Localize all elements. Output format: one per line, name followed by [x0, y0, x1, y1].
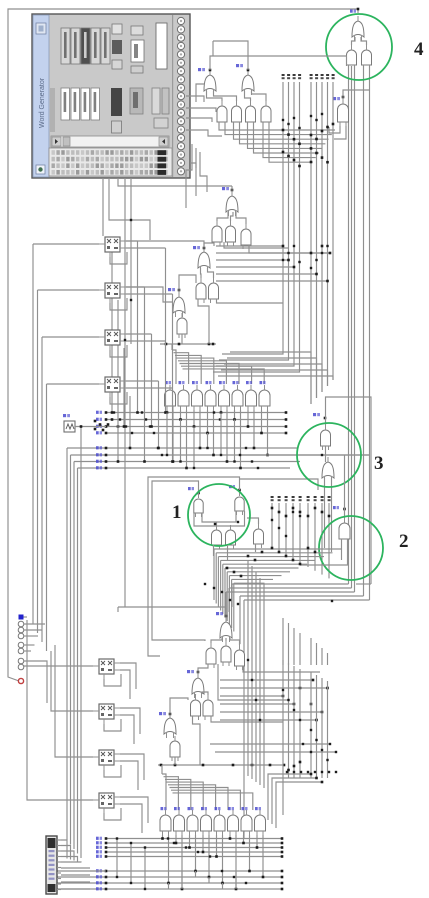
bus A line 3 — [106, 426, 286, 428]
junction dots row y772 — [286, 771, 337, 773]
wire FB2 out a — [120, 708, 140, 734]
left bundle wire 5 — [80, 427, 82, 858]
wire FB4 input — [27, 620, 93, 800]
blue label bottom bus A 2 — [96, 841, 102, 844]
blue label row2 gate 8 — [255, 807, 261, 810]
wires AND row deep drops — [167, 413, 235, 469]
wire C1D drop — [227, 545, 229, 560]
junction dots bus upper — [282, 123, 335, 168]
bottom vertical bus 4 — [299, 669, 301, 778]
wire FF1 out b — [126, 247, 166, 249]
wire connector link bus — [90, 870, 106, 872]
junction dot T5 out — [203, 247, 206, 250]
wire FF2 out a — [126, 286, 145, 288]
bottom vertical bus 3 — [293, 666, 295, 778]
wire U19 drop a — [363, 66, 365, 596]
bottom bus A dots — [105, 837, 284, 858]
wire outer loop from OR U17 output around page left edge — [8, 9, 358, 681]
wire B6 to B5 — [195, 694, 197, 695]
bottom vertical bus 7 — [321, 678, 323, 778]
wire FF2 loop — [110, 298, 127, 310]
wire B1 out — [118, 607, 226, 617]
panel frequency control — [130, 26, 144, 114]
junction dot C2 out — [343, 508, 346, 511]
vertical bus wire T4 — [213, 82, 300, 372]
wire drop to tree 4 — [239, 596, 241, 644]
flip-flop FB2 — [93, 704, 120, 724]
blue label row2 gate 6 — [228, 807, 234, 810]
AND gate C1E — [254, 524, 264, 548]
wire right turn 6 — [356, 583, 371, 585]
wire C2A out up — [344, 455, 346, 518]
wire FF1 loop — [110, 252, 127, 264]
wires panel terminals to gates — [186, 96, 222, 136]
blue label bottom bus B 3 — [96, 881, 102, 884]
flip-flop FF1 — [99, 237, 126, 257]
wire panel to FF1 — [102, 178, 104, 236]
bottom bus B line 2 — [57, 876, 282, 878]
bundle bottom corner 3 — [73, 848, 75, 850]
bus A line 1 — [106, 412, 286, 414]
wire drop to tree 2 — [228, 588, 230, 612]
blue label C1 right — [229, 485, 235, 488]
wire T2 to T1 — [217, 212, 228, 221]
wires bottom AND row drops — [163, 835, 264, 889]
blue label B8 — [159, 712, 166, 715]
junction dot at U17 output — [357, 8, 360, 11]
junction dots fan-bus — [282, 129, 329, 164]
blue label bus B 2 — [96, 453, 102, 456]
blue label row1 gate 8 — [260, 381, 266, 384]
vertical bus wire T1 — [222, 82, 283, 354]
vertical bus wire T8 — [327, 82, 329, 386]
blue label row1 gate 3 — [192, 381, 198, 384]
AND gate S5 — [214, 810, 225, 835]
blue label U16 — [333, 97, 340, 100]
wire C1D up — [230, 525, 232, 526]
blue label row2 gate 5 — [215, 807, 221, 810]
vertical bus wire T6 — [316, 82, 318, 398]
wire U18 drop b — [351, 66, 353, 588]
svg-text:1: 1 — [172, 502, 182, 523]
blue label B5 — [187, 670, 194, 673]
wire FF4 out a — [126, 380, 159, 382]
wire blue terminal — [24, 616, 28, 618]
indicator circles column — [18, 621, 24, 670]
wire B7 to B5 — [202, 692, 208, 695]
wire panel bottom drop 1 — [118, 178, 232, 186]
wire fan connector to bundle — [61, 840, 81, 863]
wire right turn 5 — [244, 599, 370, 601]
AND gate B2 — [206, 643, 216, 668]
blue label C3 gate — [313, 413, 320, 416]
AND gate T6 — [196, 278, 206, 303]
wires bottom bus upward extensions — [283, 618, 328, 665]
wire B4 to B1 — [230, 638, 240, 645]
blue label U2 — [236, 64, 243, 67]
annotation circle 1 — [188, 484, 250, 546]
bus B line 2 — [71, 454, 370, 456]
flip-flop FF3 — [99, 330, 126, 350]
junction dots clock area — [80, 418, 120, 431]
junction dots U1 U2 outputs — [209, 69, 250, 72]
wire stub y479 — [240, 479, 318, 490]
wire C3B drop b — [331, 478, 333, 552]
wire C3A output up — [326, 397, 372, 584]
annotation number 2 — [399, 531, 409, 552]
Word Generator title bar icon — [36, 23, 46, 34]
wire FF1 to T5 — [126, 241, 204, 246]
bottom bundle corner 3 — [272, 778, 317, 824]
bottom bundle corner 1 — [282, 778, 284, 815]
wire FB4 loop — [104, 808, 121, 820]
wire bottom tree horizontal — [158, 764, 285, 766]
AND gate U5 — [246, 101, 256, 126]
left bundle wire 4 — [77, 468, 79, 854]
wire fan middle — [214, 549, 341, 632]
wire panel to tree 2 — [109, 178, 150, 240]
AND gate U19 (circle 4 right) — [362, 45, 372, 69]
wire U19 drop b — [369, 66, 371, 600]
AND gate S7 — [241, 810, 252, 835]
bottom bus B line 4 — [57, 888, 282, 890]
left bundle wire 1 — [66, 448, 68, 840]
wire FF1 input — [33, 243, 99, 245]
bottom vertical bus 1 — [282, 660, 284, 778]
wire U16 stub left b — [334, 126, 346, 139]
blue label row2 gate 1 — [161, 807, 167, 810]
wires FF column verticals — [112, 241, 173, 462]
wire drop to tree 5 — [243, 600, 245, 838]
panel trigger buttons — [111, 24, 122, 133]
wire FB1 input — [24, 665, 93, 667]
svg-text:2: 2 — [399, 531, 409, 552]
panel address fields Edit/Current/Initial/Final — [50, 88, 100, 132]
panel control buttons Cycle/Burst/Step — [61, 28, 110, 64]
connector J1 — [46, 836, 57, 894]
svg-text:3: 3 — [374, 453, 384, 474]
OR gate C3B — [322, 457, 334, 482]
wire long bottom horizontal 2 — [215, 751, 336, 753]
bus A line 4 — [106, 432, 286, 434]
wire T8 out up — [179, 275, 196, 292]
wire top link — [212, 41, 214, 56]
AND gate R3 — [192, 385, 203, 410]
wire C1 loop inner — [202, 511, 236, 522]
bottom bus B dots — [105, 870, 284, 891]
wire FB3 input — [55, 645, 93, 757]
wire FB1 out b — [120, 670, 130, 699]
wire B3 to B1 — [225, 638, 227, 641]
junction dot B5 out — [197, 671, 200, 674]
bus A line 2 — [106, 419, 286, 421]
wire U1 input feed left — [196, 84, 204, 102]
vertical bus wire T7 — [321, 82, 323, 392]
bottom vertical bus 2 — [288, 663, 290, 778]
junction dots deep drops — [166, 447, 236, 469]
wire C1C drop — [213, 545, 215, 556]
flip-flop FB1 — [93, 659, 120, 679]
wire U6 out to U2 in — [252, 91, 267, 101]
svg-text:4: 4 — [414, 39, 424, 60]
wire FF1 out a — [126, 240, 138, 242]
annotation number 3 — [374, 453, 384, 474]
AND gate C1A — [194, 493, 203, 517]
bus B dots — [105, 447, 108, 470]
junction dots bottom bundle — [287, 761, 323, 784]
clock source symbol — [64, 421, 75, 432]
junction dots AND row drops — [166, 411, 269, 469]
wire U4 out to U1 in — [214, 91, 237, 101]
wire C1A out up — [152, 481, 205, 641]
wire U18 drop a — [348, 66, 350, 584]
bus A end dots — [105, 411, 288, 434]
wire tree right link 3 — [224, 242, 289, 248]
wires long verticals mid-bottom — [248, 560, 264, 788]
blue label bottom bus B 2 — [96, 875, 102, 878]
bottom bus A line 3 — [106, 847, 282, 849]
bottom bus A line 1 — [106, 838, 282, 840]
AND gate C3A — [321, 425, 331, 450]
wire T9 drop — [181, 334, 183, 344]
vertical bus wire T5 — [310, 82, 312, 404]
wire U18 drop c — [354, 66, 356, 592]
AND gate R7 — [246, 385, 257, 410]
bottom bus B line 1 — [57, 870, 282, 872]
vertical bus row 2 wires — [272, 503, 329, 578]
AND gate T7 — [209, 278, 219, 303]
wire tree horizontal with dots — [160, 343, 216, 345]
wires AND row drops — [167, 410, 268, 468]
blue label row1 gate 7 — [246, 381, 252, 384]
AND gate C1C — [212, 525, 222, 549]
svg-text:Word Generator: Word Generator — [39, 77, 46, 128]
junction dots bottom tree horizontal — [160, 764, 286, 767]
AND gate B3 — [221, 641, 231, 666]
blue label bottom bus B 4 — [96, 887, 102, 890]
wire FB3 out b — [120, 761, 138, 790]
blue label C2 — [333, 506, 339, 509]
annotation circle 3 — [297, 423, 361, 487]
wire U16 output up — [343, 90, 370, 99]
wire tree right link 2 — [217, 299, 284, 303]
junction dots density — [113, 113, 329, 884]
wire U19 output to U17 input — [361, 37, 367, 45]
wire T1 out — [231, 186, 233, 191]
blue label row2 gate 7 — [242, 807, 248, 810]
wire FB4 out a — [120, 797, 148, 823]
blue label bottom bus A 3 — [96, 846, 102, 849]
wire U1 output up and right to U18 — [210, 56, 347, 70]
wire B5 out up — [198, 664, 208, 673]
bus B line 4 — [78, 467, 291, 469]
wires indicator fan — [24, 624, 45, 651]
AND gate U6 — [261, 101, 271, 126]
wires tree to bus horizontals — [216, 246, 330, 281]
bundle bottom corner 2 — [70, 844, 72, 846]
bus B line 3 — [74, 461, 300, 463]
wire C1 loop outer — [194, 511, 245, 526]
wire right pair turn 2 — [229, 587, 352, 589]
wire right turn 4 — [240, 595, 364, 597]
blue label bus B 1 — [96, 446, 102, 449]
AND gate T9 — [177, 313, 187, 338]
junction dots long bottom horizontals — [302, 743, 337, 753]
blue label row1 gate 1 — [165, 381, 171, 384]
OR gate B5 — [192, 673, 204, 698]
junction dots bottom bus left verticals — [116, 837, 146, 890]
AND gate S3 — [187, 810, 198, 835]
blue label row1 gate 2 — [179, 381, 185, 384]
wire FF2 to T8 — [126, 287, 173, 302]
AND gate S1 — [160, 810, 171, 835]
wire FB3 out a — [120, 754, 144, 780]
blue label row2 gate 2 — [174, 807, 180, 810]
AND gate B7 — [203, 695, 213, 720]
flip-flop FB3 — [93, 750, 120, 770]
wire FF2 input — [38, 289, 100, 291]
Word Generator title text (rotated) — [39, 77, 46, 128]
wire drop to tree 1 — [231, 584, 233, 607]
wire B2 to B1 — [211, 638, 222, 643]
blue label bus A 4 — [96, 431, 102, 434]
vertical bus wire T9 — [332, 82, 334, 380]
junction dots C1 outs — [197, 489, 241, 495]
wire FB2 input — [51, 651, 93, 711]
blue label row2 gate 4 — [201, 807, 207, 810]
bus B line 1 — [67, 447, 298, 449]
AND gate U4 — [232, 101, 242, 126]
left bundle wire 2 — [70, 455, 72, 845]
blue label T8 — [168, 288, 175, 291]
bottom bundle corner 2 — [268, 774, 311, 820]
wire U3 out to U1 in — [207, 91, 223, 101]
wires bottom bus left verticals — [117, 839, 145, 890]
blue label bottom bus B 1 — [96, 869, 102, 872]
AND gate C1D — [226, 525, 236, 549]
wire C2A input b — [300, 539, 348, 565]
AND gate R8 — [259, 385, 270, 410]
junction dots label row 2 — [271, 507, 331, 518]
junction dot T8 out — [178, 289, 181, 292]
wire indicator long 1 — [24, 661, 47, 703]
wire C2A input a — [341, 539, 343, 560]
junction dots C1 loop — [214, 521, 239, 525]
wire T9 to T8 — [181, 312, 183, 314]
bundle fifth top — [80, 426, 82, 428]
AND gate R2 — [178, 385, 189, 410]
wire U18 output to U17 input — [352, 37, 356, 45]
wire FF3 out b — [126, 340, 166, 342]
blue label near U17 — [350, 10, 356, 13]
annotation number 4 — [414, 39, 424, 60]
AND gate S8 — [255, 810, 266, 835]
wire U5 out to U2 in — [245, 91, 251, 101]
wire B1 left feed — [117, 607, 119, 612]
wire fan tree to AND row — [172, 350, 264, 384]
AND gate S4 — [201, 810, 212, 835]
AND gate B4 — [235, 645, 245, 670]
panel terminal circles — [177, 17, 184, 175]
wire T5 out up — [204, 243, 214, 248]
bottom bundle corner 4 — [276, 782, 322, 828]
bottom vertical bus 6 — [316, 675, 318, 778]
wire C1C up — [216, 522, 218, 525]
wire panel bottom drop 3 — [130, 178, 132, 344]
bundle bottom corner 1 — [66, 839, 68, 841]
wire FF3 loop — [110, 345, 127, 357]
wire panel bottom drop 2 — [124, 178, 126, 607]
wire C1E drop — [255, 544, 257, 552]
Word Generator bottom icon — [36, 165, 45, 174]
Word Generator panel body with title bar — [32, 14, 190, 178]
junction dots bottom AND row drops — [161, 837, 264, 890]
blue label U1 — [198, 68, 205, 71]
wire B9 drop — [174, 757, 176, 765]
blue label T5 — [193, 246, 200, 249]
AND gate R5 — [219, 385, 230, 410]
OR gate U1 top-left — [204, 70, 216, 95]
wire FF4 input — [47, 383, 100, 385]
wire fan AND row to bus — [219, 122, 335, 162]
panel binary/ready area — [152, 23, 169, 128]
wire FB1 out a — [120, 663, 136, 689]
wire FB4 out b — [120, 804, 142, 833]
wire T6 drop — [198, 299, 209, 344]
wire clock to bus — [75, 426, 106, 428]
panel data grid — [49, 148, 172, 176]
blue label row1 gate 6 — [233, 381, 239, 384]
AND gate U18 (circle 4 left) — [347, 45, 357, 69]
wire tree right link 1 — [249, 245, 330, 253]
AND gate R4 — [205, 385, 216, 410]
vertical bus wire T2 — [219, 82, 289, 360]
flip-flop FF4 — [99, 377, 126, 397]
blue label bottom bus A 5 — [96, 855, 102, 858]
blue label bus B 4 — [96, 466, 102, 469]
bundle bottom corner 4 — [77, 853, 79, 855]
wire across circle3 — [240, 454, 369, 456]
blue label bus A 2 — [96, 418, 102, 421]
wire C3B drop a — [324, 478, 326, 548]
OR gate T1 — [226, 191, 238, 216]
blue label bottom bus A 4 — [96, 850, 102, 853]
blue label bus A 3 — [96, 425, 102, 428]
junction dots tree horizontal — [165, 343, 215, 346]
blue label C1 left — [188, 487, 194, 490]
bottom bus A line 2 — [106, 842, 282, 844]
AND gate B6 — [191, 695, 201, 720]
wire FF4 loop — [110, 392, 127, 404]
AND gate U3 — [217, 101, 227, 126]
OR gate B1 — [220, 617, 232, 642]
blue label row1 gate 5 — [219, 381, 225, 384]
wire T6 to T5 — [200, 268, 203, 278]
wire B6 drop — [193, 716, 201, 765]
wire FF4 input corner — [46, 384, 48, 651]
blue label clock — [63, 414, 70, 417]
panel right edge line — [172, 15, 173, 177]
wire U16 stub left a — [329, 126, 340, 133]
wire FF1 input corner — [32, 244, 34, 624]
blue label row1 gate 4 — [206, 381, 212, 384]
AND gate B9 — [170, 736, 180, 761]
junction dots bottom tree-bus — [282, 679, 329, 722]
vertical bus wire T3 — [216, 82, 294, 366]
junction dots middle fan — [226, 547, 317, 578]
junction dot bottom tree feed — [225, 615, 228, 618]
AND gate U16 right — [338, 99, 349, 126]
